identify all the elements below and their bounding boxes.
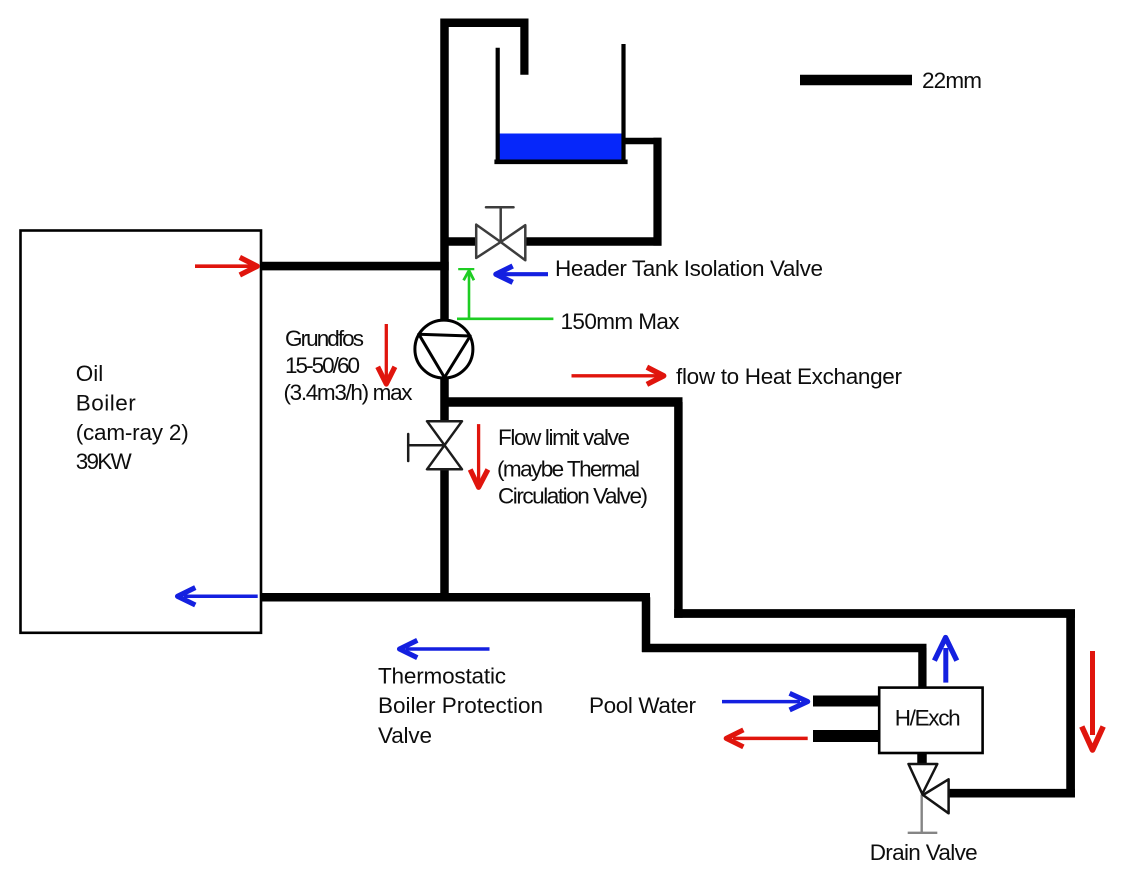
heat exchanger box H/Exch <box>879 688 982 753</box>
wire pool water inlet stub <box>813 696 880 707</box>
wire far right vertical drop <box>1066 614 1075 798</box>
svg-text:Drain Valve: Drain Valve <box>870 840 978 865</box>
wire heat exchanger drop vertical <box>674 402 683 618</box>
svg-text:Pool Water: Pool Water <box>589 693 697 718</box>
wire heat exchanger return horizontal <box>642 644 927 653</box>
svg-text:(maybe Thermal: (maybe Thermal <box>497 457 640 482</box>
wire vent riser (main riser x=444.5 from top bar down to pump) <box>440 19 449 322</box>
arrow red pool water out <box>726 730 808 747</box>
svg-text:H/Exch: H/Exch <box>895 706 961 731</box>
svg-text:Circulation Valve): Circulation Valve) <box>498 484 648 509</box>
wire riser pump-to-valve segment <box>440 377 449 422</box>
wire tank feed horizontal from tank wall to feed drop <box>624 138 662 145</box>
wire riser below flow limit valve down to return main <box>440 468 449 601</box>
wire vent top horizontal bar <box>441 18 529 27</box>
PIPES <box>261 19 1076 798</box>
wire isolation valve pipe right segment <box>525 237 662 246</box>
wire return main (boiler bottom inlet) <box>261 593 651 602</box>
svg-text:Valve: Valve <box>378 723 432 748</box>
svg-text:39KW: 39KW <box>76 449 133 474</box>
wire long top-right horizontal run <box>674 609 1075 618</box>
arrow blue up out of heat exchanger <box>934 638 956 683</box>
wire heat exchanger top stub <box>918 648 926 689</box>
svg-text:flow to Heat Exchanger: flow to Heat Exchanger <box>676 364 903 389</box>
wire isolation valve pipe left segment <box>441 237 478 246</box>
arrow red flow limit valve down <box>470 424 488 487</box>
svg-text:150mm Max: 150mm Max <box>561 309 681 334</box>
wire tank feed vertical drop to isolation valve pipe <box>653 138 661 246</box>
svg-text:Thermostatic: Thermostatic <box>378 664 506 689</box>
svg-text:Flow limit valve: Flow limit valve <box>498 425 630 450</box>
arrow blue pool water in <box>722 693 808 710</box>
oil boiler box <box>21 231 262 633</box>
wire boiler flow pipe (boiler top outlet to riser) <box>261 262 449 271</box>
flow limit valve (vertical bowtie with left stem) <box>408 421 462 469</box>
wire heat exchanger bottom stub to drain valve <box>917 752 927 766</box>
svg-text:Header Tank Isolation Valve: Header Tank Isolation Valve <box>555 256 823 281</box>
arrow blue header tank isolation valve pointer <box>496 266 548 282</box>
header tank right wall <box>621 44 625 162</box>
wire pool water outlet stub <box>813 730 880 742</box>
header tank left wall <box>496 48 500 162</box>
arrow green 150mm dimension <box>457 269 553 319</box>
wire flow tee horizontal to heat exchanger drop <box>445 397 683 407</box>
svg-text:(cam-ray 2): (cam-ray 2) <box>76 420 189 445</box>
header tank water fill <box>494 44 627 162</box>
arrow red flow to heat exchanger <box>572 367 664 384</box>
arrow red flow into boiler (top) <box>195 257 257 275</box>
svg-text:Boiler: Boiler <box>76 391 137 416</box>
svg-text:Boiler Protection: Boiler Protection <box>378 693 543 718</box>
ARROWS <box>178 257 1104 750</box>
svg-text:(3.4m3/h) max: (3.4m3/h) max <box>284 380 414 405</box>
arrow red pump flow down <box>378 324 395 384</box>
pump Grundfos (circle with triangle) <box>415 320 473 378</box>
drain valve <box>908 764 949 833</box>
svg-text:15-50/60: 15-50/60 <box>285 353 360 378</box>
wire vent right drop into tank <box>520 19 528 75</box>
wire return riser from heat exchanger loop <box>642 597 651 652</box>
header tank isolation valve (bowtie) <box>476 207 525 260</box>
arrow blue return out of boiler (bottom) <box>178 588 258 605</box>
arrow red far-right down flow <box>1082 651 1103 750</box>
wire 22mm legend sample line <box>800 75 912 86</box>
svg-text:22mm: 22mm <box>922 68 982 93</box>
header tank bottom <box>494 160 627 165</box>
svg-text:Oil: Oil <box>76 361 104 386</box>
arrow blue thermostatic return <box>400 640 490 657</box>
svg-text:Grundfos: Grundfos <box>285 326 364 351</box>
wire bottom right horizontal to drain valve <box>949 789 1075 798</box>
